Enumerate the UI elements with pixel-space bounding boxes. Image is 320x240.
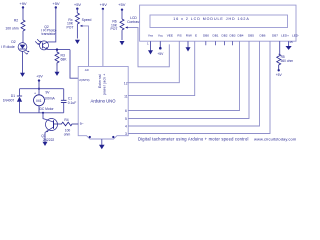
svg-text:Speed: Speed	[82, 18, 92, 22]
node (Arduino GND pins)	[89, 136, 91, 138]
svg-text:100 ohm: 100 ohm	[5, 26, 18, 30]
ground (speed pot)	[75, 40, 80, 44]
wire Arduino GND	[101, 139, 103, 145]
svg-text:POT: POT	[67, 25, 74, 29]
svg-text:3: 3	[125, 132, 127, 136]
wire Vcc to +5V	[159, 41, 161, 48]
svg-text:C1: C1	[68, 97, 72, 101]
node (collector junction on rail)	[42, 112, 44, 114]
svg-text:VEE: VEE	[167, 34, 173, 38]
svg-text:4: 4	[125, 124, 127, 128]
ground (D2)	[20, 73, 25, 77]
LCD screen inner box	[150, 15, 288, 28]
wire R2 to D2	[22, 31, 24, 43]
svg-text:LED+: LED+	[281, 34, 289, 38]
wire R3 to ground	[56, 66, 58, 73]
svg-text:2N2222: 2N2222	[43, 138, 55, 142]
wire Q1 emitter to ground	[44, 132, 46, 142]
wire LED+ to R5	[279, 41, 281, 54]
node +5V (LED+)	[278, 69, 280, 71]
capacitor C1 0.1uF	[61, 89, 67, 113]
wire motor top rail	[20, 88, 64, 90]
svg-text:DC Motor: DC Motor	[39, 107, 54, 111]
ground (Vss)	[148, 50, 153, 54]
svg-text:transistor: transistor	[42, 32, 57, 36]
svg-text:9~: 9~	[80, 122, 84, 126]
wire +5V to Q2 collector	[48, 8, 56, 42]
svg-text:6: 6	[125, 109, 127, 113]
svg-text:+5V: +5V	[52, 1, 60, 6]
LCD pin stubs DB0-DB3 (unconnected)	[206, 41, 233, 45]
resistor R4 100 ohm (base)	[54, 122, 79, 126]
svg-text:Arduino UNO: Arduino UNO	[91, 99, 117, 104]
svg-text:ohm: ohm	[64, 132, 71, 136]
svg-text:16 x 2 LCD MODULE JHD 162A: 16 x 2 LCD MODULE JHD 162A	[173, 17, 249, 21]
ground (Arduino)	[99, 145, 105, 149]
+5V supply (phototransistor)	[52, 1, 60, 9]
svg-text:+5V: +5V	[276, 73, 283, 77]
svg-text:R/W: R/W	[186, 34, 192, 38]
ground (Q1 emitter)	[43, 142, 48, 146]
ground (R3)	[55, 72, 60, 76]
svg-text:Contrast: Contrast	[127, 20, 140, 24]
svg-text:M1: M1	[36, 99, 41, 103]
wire LCD DB4 to Arduino pin 6	[128, 41, 239, 110]
svg-text:+5V: +5V	[157, 52, 164, 56]
svg-text:2(INT0): 2(INT0)	[79, 78, 89, 82]
wire +9V to R2	[22, 8, 24, 21]
svg-text:9V: 9V	[45, 91, 50, 95]
svg-text:RS: RS	[177, 34, 181, 38]
svg-text:External: External	[98, 74, 102, 88]
transistor Q1 2N2222	[45, 119, 57, 133]
svg-text:100mA: 100mA	[44, 97, 55, 101]
svg-text:1: 1	[147, 42, 149, 46]
svg-text:1N4007: 1N4007	[3, 98, 15, 102]
node (motor rail top)	[38, 88, 40, 90]
svg-text:DB2: DB2	[221, 34, 227, 38]
resistor R2 100 ohm	[21, 20, 25, 31]
wire LCD E to Arduino pin 11	[128, 41, 195, 95]
svg-text:11: 11	[124, 95, 128, 99]
svg-text:+9V: +9V	[36, 75, 43, 79]
svg-text:DB1: DB1	[212, 34, 218, 38]
wire LCD DB7 to Arduino pin 3	[128, 41, 270, 133]
svg-text:+9V: +9V	[19, 1, 27, 6]
svg-text:+5V: +5V	[118, 2, 126, 7]
wire R/W to ground	[187, 41, 189, 47]
wire D2 to ground	[22, 51, 24, 73]
svg-text:A0: A0	[85, 68, 89, 72]
svg-text:0.1uF: 0.1uF	[68, 101, 76, 105]
wiper wire (contrast pot to LCD VEE)	[126, 28, 170, 67]
wire node to Arduino pin 2 (INT0)	[70, 50, 78, 79]
svg-text:Vcc: Vcc	[158, 34, 164, 38]
potentiometer R6 10K POT (LCD Contrast)	[120, 10, 124, 40]
svg-text:Digital tachometer using Ardui: Digital tachometer using Arduino + motor…	[138, 136, 249, 141]
+9V supply (IR LED branch)	[19, 1, 27, 9]
svg-text:D2: D2	[11, 40, 15, 44]
LCD pin labels	[148, 34, 299, 38]
svg-text:DB5: DB5	[248, 34, 254, 38]
diode D1 1N4007 (flyback)	[17, 89, 22, 113]
wire +9V to power jack pin	[102, 9, 104, 66]
svg-text:R2: R2	[14, 19, 18, 23]
svg-text:DB3: DB3	[229, 34, 235, 38]
svg-text:LED-: LED-	[292, 34, 299, 38]
resistor R5 560 ohm	[277, 54, 281, 70]
svg-text:DB0: DB0	[203, 34, 209, 38]
resistor R3 68K	[55, 50, 59, 66]
ground (LED-)	[286, 46, 292, 50]
svg-text:POT: POT	[111, 27, 118, 31]
svg-text:DB6: DB6	[259, 34, 265, 38]
wire rail to Q1 collector	[43, 113, 54, 122]
LCD module outer box	[140, 5, 296, 41]
svg-text:+9V: +9V	[100, 2, 108, 7]
svg-text:R4: R4	[64, 118, 68, 122]
svg-text:5: 5	[125, 117, 127, 121]
wire LCD RS to Arduino pin 12	[128, 41, 179, 82]
svg-text:560 ohm: 560 ohm	[281, 59, 294, 63]
wire LCD DB5 to Arduino pin 5	[128, 41, 249, 118]
wire LCD DB6 to Arduino pin 4	[128, 41, 259, 126]
+9V supply (external power jack)	[100, 2, 108, 10]
svg-text:DB7: DB7	[272, 34, 278, 38]
wire Q2 emitter to node	[48, 49, 70, 51]
svg-text:68K: 68K	[61, 58, 68, 62]
svg-text:+: +	[34, 92, 36, 96]
node (emitter/R3 junction)	[56, 48, 58, 50]
+5V supply (speed pot)	[74, 2, 82, 10]
Arduino UNO U1 box	[78, 66, 128, 139]
+5V supply (contrast pot)	[118, 2, 126, 11]
node +5V (Vcc)	[159, 47, 162, 50]
wire +9V to motor rail	[38, 81, 40, 89]
wire LED- to ground	[288, 41, 290, 46]
potentiometer Rx 10K POT (Speed)	[75, 9, 79, 39]
ground (contrast pot)	[120, 41, 125, 45]
wire motor bottom rail	[20, 112, 64, 114]
phototransistor Q2	[35, 39, 48, 50]
svg-text:E: E	[195, 34, 197, 38]
wire Vss to ground	[150, 41, 152, 50]
svg-text:Vss: Vss	[148, 34, 154, 38]
wiper wire (speed pot to A0)	[80, 26, 88, 66]
ground (R/W)	[186, 47, 191, 51]
svg-text:power jack +: power jack +	[103, 73, 107, 95]
svg-text:12: 12	[124, 82, 128, 86]
svg-text:15: 15	[289, 40, 293, 44]
svg-text:www.circuitstoday.com: www.circuitstoday.com	[254, 136, 297, 141]
IR LED D2	[18, 43, 29, 55]
+9V supply (motor)	[36, 75, 43, 82]
motor M1	[34, 89, 45, 113]
svg-text:+5V: +5V	[74, 2, 82, 7]
svg-text:DB4: DB4	[237, 34, 243, 38]
svg-text:I R diode: I R diode	[1, 45, 15, 49]
